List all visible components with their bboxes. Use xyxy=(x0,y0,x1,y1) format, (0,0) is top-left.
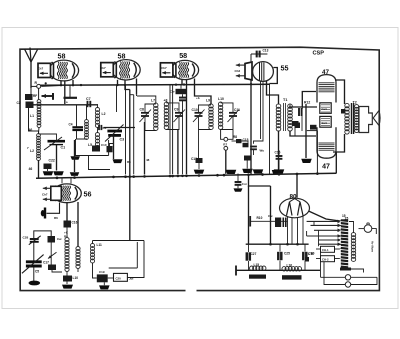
tube V8 80 xyxy=(280,198,310,218)
svg-text:L1: L1 xyxy=(30,114,34,118)
wire heater v314 xyxy=(313,221,315,225)
svg-text:58: 58 xyxy=(179,51,187,60)
wire Lb bottom xyxy=(77,268,79,272)
svg-text:15: 15 xyxy=(342,214,346,218)
wire C16 down xyxy=(66,228,68,239)
svg-text:L9: L9 xyxy=(206,99,210,103)
wire loop right v144 xyxy=(127,241,144,278)
arrow lead T3 3 xyxy=(314,229,342,233)
wire R7 down xyxy=(225,150,227,174)
wire T1 sec top to 47 grid xyxy=(302,92,316,108)
T2 secondary coil xyxy=(355,105,359,133)
wire C12 drop xyxy=(198,130,200,158)
junction dots bus xyxy=(60,84,62,86)
cathode resistor R3 xyxy=(69,85,71,98)
wire IF1 pri top xyxy=(137,96,156,104)
svg-text:R7: R7 xyxy=(223,143,227,147)
wire plug line1 xyxy=(321,276,346,278)
svg-text:RF: RF xyxy=(33,94,37,98)
ground C1 xyxy=(53,171,64,175)
oscillator coil La xyxy=(65,238,69,272)
capacitor C19 xyxy=(97,274,108,282)
wire C5 right xyxy=(104,127,136,129)
svg-text:Cw1: Cw1 xyxy=(322,107,328,111)
variable capacitor C3 xyxy=(107,130,122,133)
tube V4 55 bulb xyxy=(253,62,274,82)
svg-text:Jul: Jul xyxy=(129,277,134,281)
lead V3 k xyxy=(181,80,183,85)
svg-text:R10: R10 xyxy=(257,216,263,220)
potentiometer R7 terminals xyxy=(224,137,228,141)
wire boxes right xyxy=(335,248,343,250)
tube V6 47 bulb xyxy=(317,127,336,158)
IF1 primary coil L7 xyxy=(154,103,158,130)
antenna xyxy=(30,62,32,88)
wire v133 down xyxy=(133,95,135,175)
terminal bar left xyxy=(235,266,237,276)
bus wire y85 xyxy=(40,84,270,85)
box CH-1 xyxy=(321,246,335,252)
wire v75 xyxy=(74,140,76,172)
svg-text:Wu: Wu xyxy=(260,149,265,153)
capacitor C31 xyxy=(310,125,317,130)
T2 core xyxy=(351,103,353,134)
lead V1 k xyxy=(60,81,62,86)
svg-text:L2: L2 xyxy=(102,112,106,116)
svg-text:47: 47 xyxy=(322,164,330,171)
wire L2 bottom to bus xyxy=(38,160,40,178)
svg-text:Cst: Cst xyxy=(242,182,247,186)
svg-text:Ch7: Ch7 xyxy=(42,193,48,197)
svg-text:L5: L5 xyxy=(88,143,92,147)
svg-text:C3: C3 xyxy=(120,138,125,142)
svg-text:R6: R6 xyxy=(54,216,58,220)
ground 47 cathode xyxy=(301,159,312,163)
wire drop x238 xyxy=(237,174,239,182)
svg-text:C16: C16 xyxy=(275,151,281,155)
capacitor C26 xyxy=(275,218,281,228)
svg-text:C27: C27 xyxy=(251,252,257,256)
wire C17 leads xyxy=(52,270,62,272)
svg-text:L10: L10 xyxy=(73,276,79,280)
ground C17b xyxy=(237,185,239,188)
wire upper plate to T2 xyxy=(335,80,345,104)
svg-text:C28: C28 xyxy=(23,235,29,239)
pilot lamp leads xyxy=(359,228,365,230)
wire bias v1 xyxy=(301,107,303,109)
plug pin 1 xyxy=(345,275,350,280)
wire v270 down xyxy=(270,186,272,244)
filter wire y270 xyxy=(236,269,320,271)
svg-text:L M: L M xyxy=(308,252,314,256)
trimmer C10 xyxy=(195,113,203,116)
ground R7 bus xyxy=(226,170,237,174)
capacitor C30 xyxy=(304,244,306,251)
wire C13 left bend xyxy=(250,54,252,62)
svg-text:R5: R5 xyxy=(127,160,131,164)
capacitor C26 plates xyxy=(282,218,284,228)
IF1 secondary coil L8 xyxy=(164,102,168,129)
wire plug right1 xyxy=(351,276,377,278)
lead 80 b xyxy=(291,218,293,245)
lead 80 d xyxy=(302,216,304,244)
capacitor C25 xyxy=(279,244,281,251)
svg-text:T1: T1 xyxy=(283,98,287,102)
svg-text:C7: C7 xyxy=(86,97,91,101)
trimmer C11 xyxy=(229,113,237,116)
lead V4 h2 xyxy=(254,81,264,143)
svg-text:C10: C10 xyxy=(192,108,198,112)
trimmer C9 xyxy=(175,113,183,116)
wire 47 loop right xyxy=(335,152,337,173)
T3 bottom bar xyxy=(340,268,351,271)
capacitor near Wu xyxy=(250,147,257,150)
wire v172 down xyxy=(172,85,174,174)
ground C14 xyxy=(242,169,253,173)
pilot lamp xyxy=(364,225,372,233)
wire C1 stem xyxy=(56,145,58,171)
box CH-2 xyxy=(321,256,335,262)
wire CW top xyxy=(180,85,182,89)
wire C9 loop xyxy=(166,103,179,113)
svg-text:C1: C1 xyxy=(61,146,66,150)
IF2 primary coil L9 xyxy=(209,104,213,130)
svg-text:CSP: CSP xyxy=(313,51,325,57)
power transformer T3 core xyxy=(341,219,348,268)
svg-text:C19: C19 xyxy=(99,270,105,274)
lead V2 plate xyxy=(136,79,138,95)
tube V6 grid box xyxy=(320,116,331,127)
svg-text:55: 55 xyxy=(281,64,289,73)
capacitor C13 top xyxy=(251,53,267,55)
resistor R8 xyxy=(236,139,242,143)
svg-text:C25: C25 xyxy=(284,252,290,256)
grid cap arrows V7 xyxy=(43,187,51,191)
ground C4 xyxy=(70,156,80,160)
wire v269 down xyxy=(269,84,271,175)
svg-text:C5: C5 xyxy=(35,270,39,274)
oscillator coil Lb xyxy=(76,247,80,269)
wire v306 down xyxy=(306,231,308,236)
lead V4 h1 xyxy=(260,81,262,139)
wire L11 bottom xyxy=(93,263,97,279)
wire v297 to 80 xyxy=(296,175,298,198)
T1 primary coil xyxy=(276,104,281,131)
terminal bar V7k xyxy=(44,208,46,219)
grid cap arrows V4 xyxy=(236,63,245,67)
svg-text:C11: C11 xyxy=(234,108,240,112)
wire C18 bottom xyxy=(50,243,52,265)
wire L3 top xyxy=(76,105,78,127)
T1 core xyxy=(283,103,285,131)
ground v75 xyxy=(70,172,80,176)
capacitor bias 47 xyxy=(299,108,302,116)
ground C10a xyxy=(113,159,123,163)
lead V2 k xyxy=(117,80,119,85)
lead V3 g xyxy=(186,80,188,174)
svg-text:58: 58 xyxy=(118,51,126,60)
tube V5 grid box xyxy=(320,103,331,114)
svg-text:L2: L2 xyxy=(30,149,34,153)
wire plug right2 xyxy=(351,277,377,284)
svg-text:Cw: Cw xyxy=(268,214,273,218)
wire heater v318 xyxy=(318,230,320,246)
ground L11 xyxy=(99,285,110,289)
wire C3 top feed xyxy=(116,85,118,112)
svg-text:Cw1: Cw1 xyxy=(322,121,328,125)
svg-text:C6: C6 xyxy=(103,126,107,130)
wire 47 cathode loop xyxy=(305,104,307,158)
ground C12 xyxy=(198,163,200,169)
wire h169 xyxy=(89,156,111,170)
trimmer C8b xyxy=(141,113,149,116)
wire C5 to ground xyxy=(33,266,35,281)
wire v137 step xyxy=(136,95,138,96)
svg-text:CH-1: CH-1 xyxy=(322,248,329,252)
coil L2 xyxy=(37,134,41,161)
capacitor C18 xyxy=(48,236,56,243)
capacitor C17b xyxy=(235,182,242,185)
ground mid1 xyxy=(253,169,264,173)
lead V7 k2 xyxy=(66,202,68,221)
wire R10 row xyxy=(250,220,287,222)
wire boxes left xyxy=(316,248,321,250)
capacitor C14 xyxy=(244,156,251,161)
ground C22 xyxy=(43,171,54,175)
terminal bar R10 xyxy=(249,216,251,227)
capacitor L5 termination xyxy=(92,146,100,152)
T2 primary tap blob xyxy=(341,109,346,114)
lead V4 k xyxy=(250,80,252,175)
wire bus-to-PS left xyxy=(249,175,271,186)
svg-text:C2: C2 xyxy=(17,101,21,105)
wire C4 bottom junction xyxy=(77,131,88,139)
wire v248 down xyxy=(248,186,250,244)
svg-text:L7: L7 xyxy=(151,99,155,103)
wire h107 to 47 grid xyxy=(289,106,317,108)
wire Wu down xyxy=(253,150,255,156)
wire C10 loop xyxy=(199,105,212,113)
T3 secondary leads xyxy=(349,222,354,234)
svg-text:C10: C10 xyxy=(101,143,107,147)
wire v144 down xyxy=(144,122,146,175)
resistor R8b xyxy=(114,273,128,281)
plug pin 2 xyxy=(345,282,350,287)
svg-text:C8: C8 xyxy=(140,108,144,112)
wire h240 xyxy=(93,240,145,242)
wire C28 loop to C18 xyxy=(34,231,51,239)
arrow lead T3 6 xyxy=(319,242,342,246)
svg-text:48: 48 xyxy=(146,158,150,162)
capacitor C5 xyxy=(99,125,101,130)
lead V1 g2 xyxy=(64,81,66,104)
gap in bottom border xyxy=(186,288,197,293)
T1 secondary coil xyxy=(288,104,293,131)
wire IF2 sec down xyxy=(221,130,224,140)
svg-text:L10: L10 xyxy=(218,97,224,101)
svg-text:46: 46 xyxy=(29,128,33,132)
svg-text:C13: C13 xyxy=(263,49,269,53)
capacitor C15 xyxy=(243,143,249,148)
arrow lead T3 1 xyxy=(307,220,342,224)
lead V3 plate xyxy=(195,79,212,105)
wire C8b loop xyxy=(145,104,156,113)
box small left xyxy=(305,257,309,262)
tube V1 58 xyxy=(38,60,79,81)
ground osc mid xyxy=(62,285,73,289)
capacitor C27 xyxy=(248,244,250,252)
svg-text:C9: C9 xyxy=(174,108,178,112)
speaker magnet bracket xyxy=(359,107,372,133)
wire 80 plate right xyxy=(309,211,343,221)
wire v170 down xyxy=(169,85,171,174)
arrow lead T3 5 xyxy=(319,238,342,242)
coil L3 xyxy=(85,120,89,140)
svg-text:CH-2: CH-2 xyxy=(322,257,329,261)
coil L11 xyxy=(91,243,95,263)
wire bias v2 xyxy=(294,126,296,136)
speaker cone xyxy=(373,111,379,126)
svg-text:C20: C20 xyxy=(116,276,122,280)
svg-text:C17: C17 xyxy=(43,261,49,265)
capacitor C17 xyxy=(48,265,56,271)
arrow lead T3 2 xyxy=(311,224,342,228)
svg-text:C22: C22 xyxy=(49,159,55,163)
coil L1 xyxy=(37,100,41,128)
wire C3 stem xyxy=(113,135,115,159)
schematic border frame xyxy=(20,47,379,290)
ground osc left xyxy=(29,281,41,286)
wire R8 leads xyxy=(232,140,237,142)
svg-text:Ch7: Ch7 xyxy=(161,66,167,70)
wire v129 osc drop xyxy=(129,90,131,241)
wire plate V1 coupling xyxy=(33,104,98,106)
wire V4 feedback loop xyxy=(270,68,278,84)
wire v125 down xyxy=(125,85,127,174)
wire C20 xyxy=(66,271,68,276)
wire lower plate to T2 xyxy=(333,134,345,152)
lead V2 g xyxy=(125,80,130,90)
wire C19 down xyxy=(103,282,105,285)
svg-text:Cw: Cw xyxy=(57,237,62,241)
svg-text:56: 56 xyxy=(84,190,92,199)
wire h155 xyxy=(75,155,109,157)
resistor RF (wave trap) xyxy=(42,95,53,97)
wire v78 xyxy=(77,202,79,247)
wire ant to bus xyxy=(41,84,61,87)
tube V7 56 xyxy=(53,184,82,203)
svg-text:46: 46 xyxy=(29,167,33,171)
wire v317 down xyxy=(316,131,318,174)
bus B+ y244 xyxy=(246,243,309,245)
arrow lead T3 4 xyxy=(307,234,342,238)
lead V4 plate xyxy=(267,81,279,105)
svg-text:C16: C16 xyxy=(72,221,78,225)
wire CW bottom xyxy=(182,94,184,97)
node ant (open circle) xyxy=(37,84,41,88)
junction dots B+ xyxy=(269,243,272,246)
coil L4 xyxy=(95,108,99,128)
svg-text:L11: L11 xyxy=(97,243,103,247)
capacitor C2 (antenna series) xyxy=(25,94,33,100)
wire loop v137 xyxy=(136,242,138,268)
bus ground wire xyxy=(36,173,336,178)
wire plug top xyxy=(320,252,322,277)
svg-text:58: 58 xyxy=(58,52,66,61)
svg-text:Ch7: Ch7 xyxy=(38,66,44,70)
wire R8b loop xyxy=(108,277,114,279)
tube V3 58 xyxy=(160,60,198,79)
svg-text:Ch7: Ch7 xyxy=(100,66,106,70)
oscillator tap arrow xyxy=(48,252,57,258)
ground T1 pri xyxy=(272,170,283,174)
IF2 secondary coil L10 xyxy=(218,102,222,129)
ground C16b xyxy=(274,169,285,173)
wire C28 stem xyxy=(33,242,35,261)
capacitor C16 xyxy=(64,221,72,228)
lead 80 a xyxy=(287,217,289,245)
capacitor C7 xyxy=(88,101,91,107)
wire R7 right xyxy=(228,130,233,139)
resistor CW (V3 bias) xyxy=(176,89,187,94)
wire IF1 sec down xyxy=(177,130,179,175)
coil L5 xyxy=(95,132,99,149)
trimmer C1 xyxy=(48,140,66,143)
T2 primary coil xyxy=(345,103,349,134)
wire C11 loop xyxy=(221,103,233,113)
bus junction dots xyxy=(56,177,59,180)
wire T1 pri bottom xyxy=(278,131,280,170)
svg-text:C4: C4 xyxy=(69,123,73,127)
wire v108b xyxy=(108,140,110,156)
lead V7 top xyxy=(61,178,63,183)
wire L5 down xyxy=(97,149,99,151)
variable capacitor C5 osc xyxy=(26,260,42,263)
tube V4 55 cap electrode xyxy=(245,62,252,80)
svg-text:Ch2: Ch2 xyxy=(235,69,241,73)
wire T3 bottom right xyxy=(351,269,364,273)
capacitor C20 xyxy=(63,276,72,282)
svg-text:R8: R8 xyxy=(233,135,237,139)
wire V7 cathode to terminal xyxy=(47,203,60,214)
tube V2 58 xyxy=(101,60,140,80)
svg-text:+b: +b xyxy=(196,96,200,100)
svg-text:Av illum: Av illum xyxy=(371,241,375,252)
capacitor under CW xyxy=(179,98,186,101)
T3 secondary coil xyxy=(351,233,355,262)
lead V1 plate xyxy=(72,80,74,85)
lead 80 c xyxy=(297,218,299,245)
wire T1 sec bottom to 47 grid 2 xyxy=(290,131,316,137)
svg-text:80: 80 xyxy=(289,194,297,201)
resistor right of T1 xyxy=(295,123,301,129)
svg-text:R12: R12 xyxy=(304,101,310,105)
box small bias xyxy=(292,121,299,126)
wire C1 top lead xyxy=(39,134,57,141)
tube V5 47 bulb xyxy=(317,75,336,103)
